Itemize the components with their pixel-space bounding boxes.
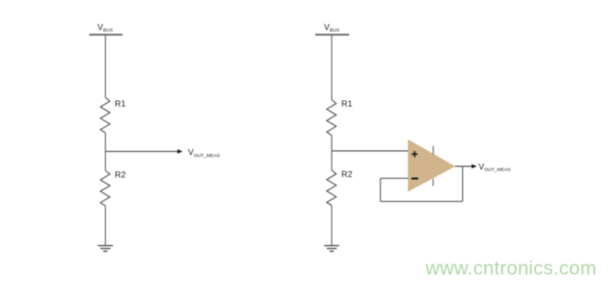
- wire (feedback left vertical): [379, 178, 381, 201]
- wire: [104, 206, 106, 246]
- arrowhead (right output): [472, 164, 477, 168]
- wire: [104, 133, 106, 171]
- wire (feedback bottom): [380, 200, 462, 202]
- ground (left): [98, 246, 113, 252]
- wire: [331, 206, 333, 246]
- wire (+ input): [332, 150, 409, 152]
- wire: [331, 36, 333, 100]
- wire (output): [455, 165, 472, 167]
- svg-text:R2: R2: [341, 169, 352, 179]
- svg-text:R1: R1: [115, 98, 126, 108]
- svg-text:www.cntronics.com: www.cntronics.com: [425, 258, 597, 280]
- op-amp power pin (bottom): [432, 179, 434, 186]
- resistor R1 (right): [327, 100, 337, 136]
- op-amp U1: [408, 139, 455, 192]
- wire: [331, 135, 333, 170]
- resistor R2 (right): [327, 170, 337, 205]
- resistor R1 (left): [100, 98, 110, 134]
- wire (feedback to inverting input): [380, 177, 408, 179]
- op-amp plus marker: [412, 151, 418, 157]
- ground (right): [324, 246, 339, 252]
- wire: [105, 150, 177, 152]
- op-amp power pin (top): [432, 146, 434, 155]
- arrowhead (left output): [177, 149, 182, 153]
- power rail VBUS (right): [315, 34, 349, 36]
- resistor R2 (left): [100, 171, 110, 206]
- wire (feedback right vertical): [462, 166, 464, 201]
- svg-text:R1: R1: [341, 99, 352, 109]
- op-amp minus marker: [411, 178, 418, 180]
- wire: [104, 36, 106, 98]
- power rail VBUS (left): [89, 34, 122, 36]
- svg-text:R2: R2: [115, 169, 126, 179]
